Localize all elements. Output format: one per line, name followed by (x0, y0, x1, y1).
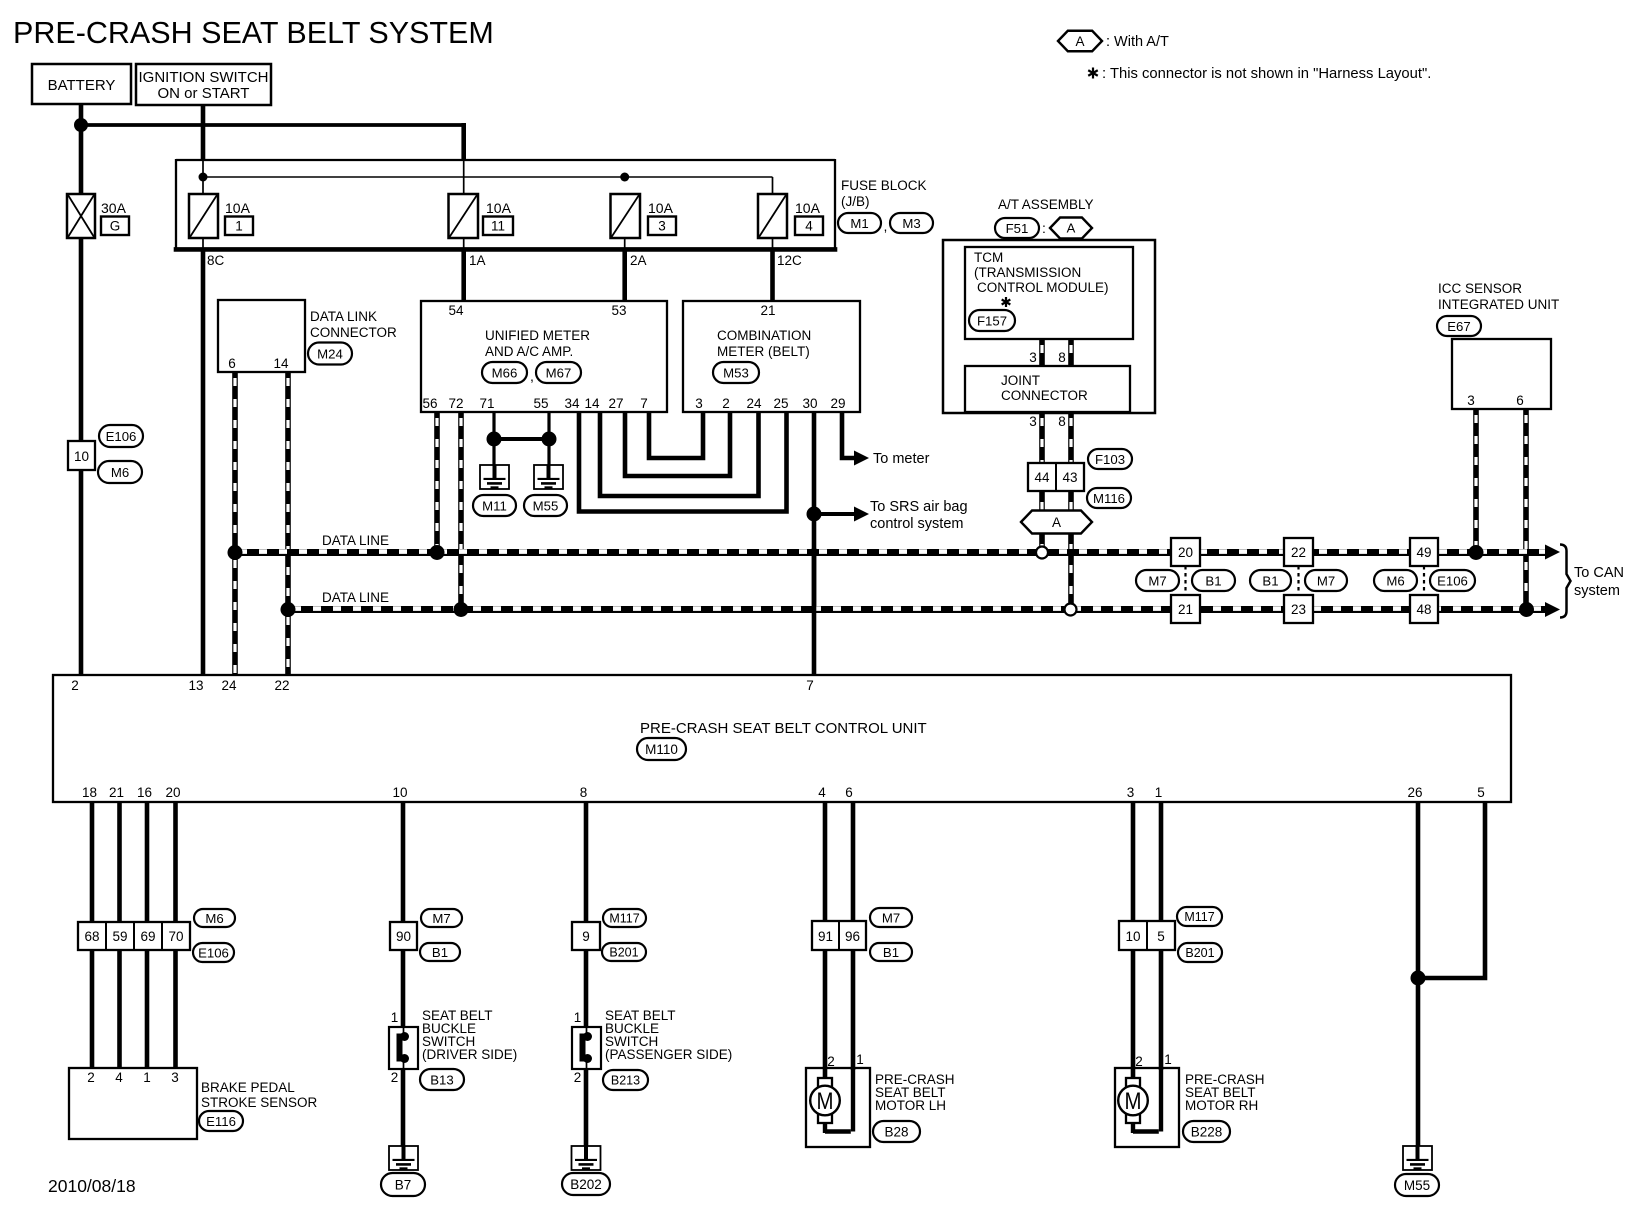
svg-text:E106: E106 (198, 945, 229, 960)
svg-text:M6: M6 (1386, 573, 1404, 588)
pin 5 label control unit bottom (1477, 785, 1485, 800)
label 2A (630, 253, 647, 268)
arrow to meter (854, 451, 869, 466)
svg-text:(J/B): (J/B) (841, 194, 870, 209)
node data line 2 at icc pin6 (1519, 602, 1534, 617)
svg-text:3: 3 (1467, 393, 1475, 408)
svg-text:To meter: To meter (873, 451, 930, 467)
svg-text:20: 20 (1178, 545, 1193, 560)
svg-text:B1: B1 (1262, 573, 1278, 588)
node pin71 ground junction (487, 432, 502, 447)
svg-text:B202: B202 (570, 1177, 602, 1192)
svg-text:To CAN: To CAN (1574, 565, 1624, 581)
svg-text:2: 2 (391, 1070, 399, 1085)
svg-text:8: 8 (1058, 414, 1066, 429)
svg-text:1: 1 (1164, 1052, 1172, 1067)
pin 24 label combination meter (746, 396, 762, 411)
svg-text:FUSE BLOCK: FUSE BLOCK (841, 178, 927, 193)
svg-text:M6: M6 (111, 465, 129, 480)
connector M7 can1 (1136, 570, 1179, 591)
svg-text:6: 6 (1516, 393, 1524, 408)
svg-text:control system: control system (870, 516, 963, 532)
svg-text:DATA LINE: DATA LINE (322, 590, 389, 605)
wire data line 1 down to pin 24 (232, 554, 238, 675)
svg-text:M116: M116 (1093, 491, 1125, 506)
wire pin 30 to control unit pin 7 (812, 412, 817, 675)
wire 5 to motor rh (1159, 950, 1164, 1070)
wire battery to pin 2 (79, 238, 84, 675)
wire pin 27 to combi pin 2 (625, 412, 730, 476)
svg-text:55: 55 (533, 396, 548, 411)
svg-text:2010/08/18: 2010/08/18 (48, 1176, 136, 1196)
svg-text:3: 3 (658, 219, 666, 234)
wire pin 7 to combi pin 3 (649, 412, 703, 458)
pin 2 label buckle driver (391, 1070, 399, 1085)
svg-text:A/T ASSEMBLY: A/T ASSEMBLY (998, 197, 1094, 212)
data link connector box (218, 300, 305, 372)
svg-text:1: 1 (1155, 785, 1163, 800)
connector B1 can1 (1192, 570, 1235, 591)
label 10A fuse11 (486, 200, 512, 216)
pin 54 label (448, 303, 464, 318)
svg-text:12C: 12C (777, 253, 802, 268)
svg-text:91: 91 (818, 929, 833, 944)
pin 20 label control unit bottom (165, 785, 180, 800)
label TCM (974, 250, 1109, 295)
fuse 10A 11 (449, 194, 479, 238)
pin 3 label control unit bottom (1127, 785, 1135, 800)
label colon F51 (1042, 220, 1046, 236)
connector strip 68 59 69 70 (78, 922, 190, 950)
label DATA LINK CONNECTOR (310, 309, 397, 340)
connector B201 ref motor rh (1178, 943, 1222, 962)
svg-text:B7: B7 (395, 1177, 412, 1192)
label BRAKE PEDAL STROKE SENSOR (201, 1080, 318, 1110)
svg-text:To SRS air bag: To SRS air bag (870, 499, 968, 515)
node ground junction (1411, 971, 1426, 986)
node fuse bus junction at ignition (199, 173, 208, 182)
svg-text:B201: B201 (1185, 946, 1214, 960)
hexagon A at F51 (1050, 218, 1092, 239)
connector B1 ref motor lh (870, 943, 912, 961)
svg-text:E106: E106 (1437, 573, 1468, 588)
svg-text:F103: F103 (1095, 452, 1125, 467)
pin 3 label brake sensor (171, 1070, 179, 1085)
wire ground link 71-55 (494, 437, 549, 441)
node battery junction (74, 118, 88, 132)
svg-text:IGNITION SWITCH: IGNITION SWITCH (139, 69, 269, 86)
wire joint pin8 to data line 2 (1068, 412, 1074, 604)
svg-text:1: 1 (235, 219, 243, 234)
svg-text:30: 30 (802, 396, 817, 411)
svg-text:B201: B201 (609, 946, 638, 960)
wire pin 34 to combi pin 25 (579, 412, 787, 512)
wire TCM pin3 to joint (1039, 339, 1045, 366)
tcm box (965, 247, 1133, 339)
wire fuse bus (203, 177, 773, 195)
svg-text:M3: M3 (902, 216, 920, 231)
connector M117 ref motor rh (1177, 907, 1222, 926)
svg-text:24: 24 (221, 678, 237, 693)
wire pin 55 ground lead (547, 412, 550, 465)
arrow data line 1 to CAN (1545, 545, 1560, 560)
pin 2 label brake sensor (87, 1070, 95, 1085)
label COMBINATION METER (BELT) (717, 328, 811, 359)
wire connector strip to brake sensor 1 (90, 950, 95, 1068)
connector B213 (603, 1070, 648, 1090)
connector B201 ref passenger (602, 943, 646, 961)
svg-text:F157: F157 (977, 313, 1007, 328)
svg-text:F51: F51 (1006, 221, 1029, 236)
legend asterisk note (1088, 66, 1431, 82)
svg-text:25: 25 (773, 396, 788, 411)
connector M1 (838, 213, 881, 233)
svg-text:1: 1 (856, 1052, 864, 1067)
svg-text:14: 14 (584, 396, 600, 411)
wire 90 to buckle switch driver (401, 950, 406, 1027)
pin 7 label control unit top (806, 678, 814, 693)
svg-text:69: 69 (140, 929, 155, 944)
connector M53 (713, 362, 759, 383)
label comma M1 M3 (884, 218, 888, 234)
pin 8 label TCM (1058, 350, 1066, 365)
svg-text:,: , (530, 368, 534, 384)
svg-text:14: 14 (273, 356, 289, 371)
connector M67 (536, 362, 581, 383)
connector M6 can3 (1374, 570, 1417, 591)
svg-text:10: 10 (1125, 929, 1140, 944)
node SRS branch junction (807, 507, 822, 522)
svg-text:16: 16 (137, 785, 152, 800)
connector E106 ref brake (193, 943, 234, 962)
joint connector box (965, 366, 1130, 412)
ground M55 right (1403, 1146, 1432, 1170)
label To SRS air bag control system (870, 499, 968, 532)
pre-crash seat belt motor RH (1115, 1068, 1179, 1147)
svg-text:M110: M110 (645, 742, 678, 757)
svg-text:70: 70 (168, 929, 183, 944)
wire feed down to fuse block (461, 123, 466, 195)
fuse 10A 4 (758, 194, 787, 238)
label PRE-CRASH SEAT BELT CONTROL UNIT (640, 720, 927, 737)
svg-text:30A: 30A (101, 200, 127, 216)
fuse 10A 1 (189, 194, 218, 238)
label UNIFIED METER AND A/C AMP (485, 328, 590, 359)
wire pin 6 down (851, 802, 856, 921)
label A/T ASSEMBLY (998, 197, 1094, 212)
wire connector strip to brake sensor 2 (117, 950, 122, 1068)
svg-text:: With A/T: : With A/T (1106, 34, 1169, 50)
seat belt buckle switch passenger side (572, 1027, 601, 1069)
pin 8 label joint (1058, 414, 1066, 429)
svg-text:B1: B1 (1205, 573, 1221, 588)
pin 34 label unified meter (564, 396, 580, 411)
connector box 23 (1284, 595, 1313, 623)
arrow to SRS (854, 507, 869, 522)
connector F157 (969, 310, 1015, 331)
svg-text:METER (BELT): METER (BELT) (717, 344, 810, 359)
svg-text:A: A (1067, 221, 1076, 236)
svg-text:M117: M117 (1184, 910, 1214, 924)
seat belt buckle switch driver side (389, 1027, 418, 1069)
svg-text:M55: M55 (1404, 1178, 1430, 1193)
label ICC SENSOR INTEGRATED UNIT (1438, 281, 1559, 312)
svg-text:(DRIVER SIDE): (DRIVER SIDE) (422, 1047, 517, 1062)
svg-text:BRAKE PEDAL: BRAKE PEDAL (201, 1080, 295, 1095)
svg-text:ON or START: ON or START (158, 85, 250, 102)
svg-text:(PASSENGER SIDE): (PASSENGER SIDE) (605, 1047, 732, 1062)
pin 2 label buckle passenger (574, 1070, 582, 1085)
svg-text:10A: 10A (648, 200, 674, 216)
wire pin 29 to meter arrow (842, 412, 855, 458)
svg-text:DATA LINK: DATA LINK (310, 309, 377, 324)
label SEAT BELT BUCKLE SWITCH DRIVER SIDE (422, 1008, 517, 1062)
pin 1 label motor lh (856, 1052, 864, 1067)
label comma M66 M67 (530, 368, 534, 384)
svg-text:26: 26 (1407, 785, 1422, 800)
wire control unit to connector 68-strip 2 (117, 802, 122, 922)
hexagon A joint connector (1021, 511, 1092, 534)
svg-text:5: 5 (1477, 785, 1485, 800)
svg-text:B1: B1 (432, 945, 448, 960)
ground B202 (572, 1146, 601, 1170)
node open circle joint pin8 (1065, 604, 1077, 616)
pin 53 label (611, 303, 626, 318)
pin 13 label control unit top (188, 678, 203, 693)
svg-text:18: 18 (82, 785, 97, 800)
node data line 1 at icc pin3 (1469, 545, 1484, 560)
svg-text:M66: M66 (492, 365, 518, 380)
svg-text:90: 90 (396, 929, 411, 944)
connector box 10 on battery wire (68, 441, 95, 470)
fuse id box 3 (648, 217, 676, 236)
svg-text:M1: M1 (850, 216, 868, 231)
wire 96 to motor lh (851, 950, 856, 1070)
pin 18 label control unit bottom (82, 785, 97, 800)
pin 27 label unified meter (608, 396, 623, 411)
svg-text:2: 2 (71, 678, 79, 693)
svg-text:TCM: TCM (974, 250, 1003, 265)
svg-text:E116: E116 (206, 1114, 236, 1129)
svg-text:59: 59 (112, 929, 127, 944)
svg-text:56: 56 (422, 396, 437, 411)
svg-text:44: 44 (1034, 470, 1050, 485)
wire SRS branch (814, 512, 855, 516)
wire pin 56 to data line 1 (434, 412, 440, 552)
svg-text:PRE-CRASH SEAT BELT CONTROL UN: PRE-CRASH SEAT BELT CONTROL UNIT (640, 720, 927, 737)
svg-text:M7: M7 (1148, 573, 1166, 588)
svg-text:10A: 10A (795, 200, 821, 216)
pin 2 label motor rh (1135, 1054, 1143, 1069)
brake pedal stroke sensor box (69, 1068, 197, 1139)
svg-text:COMBINATION: COMBINATION (717, 328, 811, 343)
connector M7 ref motor lh (870, 908, 912, 927)
connector M6 ref brake (194, 909, 235, 927)
svg-text:2: 2 (1135, 1054, 1143, 1069)
ground M11 (480, 465, 509, 489)
svg-text:2: 2 (574, 1070, 582, 1085)
svg-text:E106: E106 (106, 429, 137, 444)
pin 6 label icc (1516, 393, 1524, 408)
svg-text:5: 5 (1157, 929, 1165, 944)
connector box 48 (1410, 595, 1438, 623)
fuse block (J/B) box (174, 159, 838, 251)
svg-text:1: 1 (391, 1010, 399, 1025)
svg-text:10: 10 (74, 449, 89, 464)
pin 14 label DLC (273, 356, 289, 371)
svg-text:4: 4 (805, 219, 813, 234)
pin 6 label DLC (228, 356, 236, 371)
svg-text:24: 24 (746, 396, 762, 411)
svg-text:22: 22 (274, 678, 289, 693)
svg-text:BATTERY: BATTERY (48, 77, 116, 94)
fuse id box G (101, 217, 129, 236)
svg-text:21: 21 (109, 785, 124, 800)
svg-text:MOTOR LH: MOTOR LH (875, 1098, 946, 1113)
pin 3 label icc (1467, 393, 1475, 408)
svg-text:10: 10 (392, 785, 407, 800)
svg-text:4: 4 (115, 1070, 123, 1085)
svg-text:8C: 8C (207, 253, 225, 268)
battery (32, 64, 131, 104)
wire 12C to combination meter pin 21 (770, 249, 775, 301)
node fuse bus junction at fuse 3 (620, 173, 629, 182)
brace to CAN (1560, 545, 1571, 618)
pin 4 label control unit bottom (818, 785, 826, 800)
svg-text:B228: B228 (1191, 1124, 1223, 1139)
connector E106 can3 (1430, 570, 1475, 591)
svg-text:2A: 2A (630, 253, 647, 268)
svg-text:54: 54 (448, 303, 464, 318)
wire control unit to connector 68-strip 3 (145, 802, 150, 922)
connector B7 (381, 1173, 425, 1196)
connector M6 ref (98, 461, 142, 483)
pin 7 label unified meter (640, 396, 648, 411)
svg-text:2: 2 (722, 396, 730, 411)
svg-text:INTEGRATED UNIT: INTEGRATED UNIT (1438, 297, 1559, 312)
pin 6 label control unit bottom (845, 785, 853, 800)
svg-text:10A: 10A (486, 200, 512, 216)
svg-text:M7: M7 (1317, 573, 1335, 588)
wire fuse3 lower stub (624, 238, 626, 249)
svg-text:1: 1 (574, 1010, 582, 1025)
svg-text:34: 34 (564, 396, 580, 411)
svg-text:1A: 1A (469, 253, 486, 268)
wire pin 3 down (1131, 802, 1136, 921)
pin 26 label control unit bottom (1407, 785, 1422, 800)
svg-text:72: 72 (448, 396, 463, 411)
wire battery feed down (79, 104, 84, 194)
date (48, 1176, 136, 1196)
svg-text:1: 1 (143, 1070, 151, 1085)
label PRE-CRASH SEAT BELT MOTOR LH (875, 1072, 955, 1113)
link 20-21 (1184, 566, 1186, 595)
wire pin 71 ground lead (492, 412, 495, 465)
wire control unit to connector 68-strip 1 (90, 802, 95, 922)
pin 1 label buckle passenger (574, 1010, 582, 1025)
connector M55 ref (524, 495, 567, 516)
svg-text:M117: M117 (609, 912, 639, 926)
svg-text:CONNECTOR: CONNECTOR (310, 325, 397, 340)
svg-text:MOTOR RH: MOTOR RH (1185, 1098, 1258, 1113)
pin 3 label combination meter (695, 396, 703, 411)
connector M55 right (1395, 1174, 1439, 1196)
data line 1 (235, 548, 1546, 556)
node data line 2 at pin 72 (454, 602, 469, 617)
label DATA LINE upper (322, 533, 389, 548)
icc sensor integrated unit box (1452, 339, 1551, 409)
wire buckle passenger to ground (584, 1069, 589, 1146)
ground B7 (389, 1146, 418, 1170)
connector B1 ref driver (420, 943, 460, 961)
label SEAT BELT BUCKLE SWITCH PASSENGER SIDE (605, 1008, 732, 1062)
node open circle joint pin3 (1036, 547, 1048, 559)
wire joint pin3 to data line 1 (1039, 412, 1045, 547)
node data line 2 at DLC (281, 602, 296, 617)
svg-text:B13: B13 (430, 1072, 453, 1087)
pin 55 label unified meter (533, 396, 548, 411)
link 49-48 (1423, 566, 1425, 595)
fuse 30A G (67, 194, 95, 238)
wire fuse1 lower stub (202, 238, 204, 249)
wire pin30 overcross (812, 548, 817, 613)
wire battery feed horizontal (81, 123, 466, 127)
wire buckle driver to ground (401, 1069, 406, 1146)
svg-text:10A: 10A (225, 200, 251, 216)
pin 21 label control unit bottom (109, 785, 124, 800)
svg-text:23: 23 (1291, 602, 1306, 617)
svg-text:B213: B213 (611, 1074, 640, 1088)
connector B13 (420, 1069, 464, 1090)
svg-text:STROKE SENSOR: STROKE SENSOR (201, 1095, 318, 1110)
svg-text:6: 6 (228, 356, 236, 371)
svg-text:PRE-CRASH SEAT BELT SYSTEM: PRE-CRASH SEAT BELT SYSTEM (13, 16, 494, 50)
wire connector strip to brake sensor 3 (145, 950, 150, 1068)
label 12C (777, 253, 802, 268)
svg-text:M7: M7 (432, 911, 450, 926)
wire 91 to motor lh (823, 950, 828, 1078)
svg-text:JOINT: JOINT (1001, 373, 1040, 388)
connector M11 ref (473, 495, 516, 516)
svg-text:7: 7 (640, 396, 648, 411)
connector boxes 10 5 (1119, 921, 1175, 950)
wire ignition feed down (201, 105, 206, 195)
connector M7 can2 (1305, 570, 1347, 591)
svg-text:53: 53 (611, 303, 626, 318)
connector boxes 44 43 (1028, 463, 1084, 491)
connector M110 (637, 738, 686, 760)
svg-text:ICC SENSOR: ICC SENSOR (1438, 281, 1522, 296)
pin 16 label control unit bottom (137, 785, 152, 800)
svg-text:DATA LINE: DATA LINE (322, 533, 389, 548)
svg-text:system: system (1574, 583, 1620, 599)
svg-text:3: 3 (695, 396, 703, 411)
connector M3 (890, 213, 933, 233)
pin 24 label control unit top (221, 678, 237, 693)
connector box 49 (1410, 538, 1438, 566)
legend hexagon A (With A/T) (1058, 31, 1169, 52)
svg-text:49: 49 (1416, 545, 1431, 560)
wire pin 1 down (1159, 802, 1164, 921)
wire connector strip to brake sensor 4 (173, 950, 178, 1068)
svg-text:2: 2 (827, 1054, 835, 1069)
svg-text:UNIFIED METER: UNIFIED METER (485, 328, 590, 343)
wire DLC pin14 to data line 2 (285, 372, 291, 608)
pin 1 label brake sensor (143, 1070, 151, 1085)
connector B28 (873, 1121, 920, 1142)
wire icc pin6 to data line 2 (1523, 409, 1529, 608)
svg-text:7: 7 (806, 678, 814, 693)
